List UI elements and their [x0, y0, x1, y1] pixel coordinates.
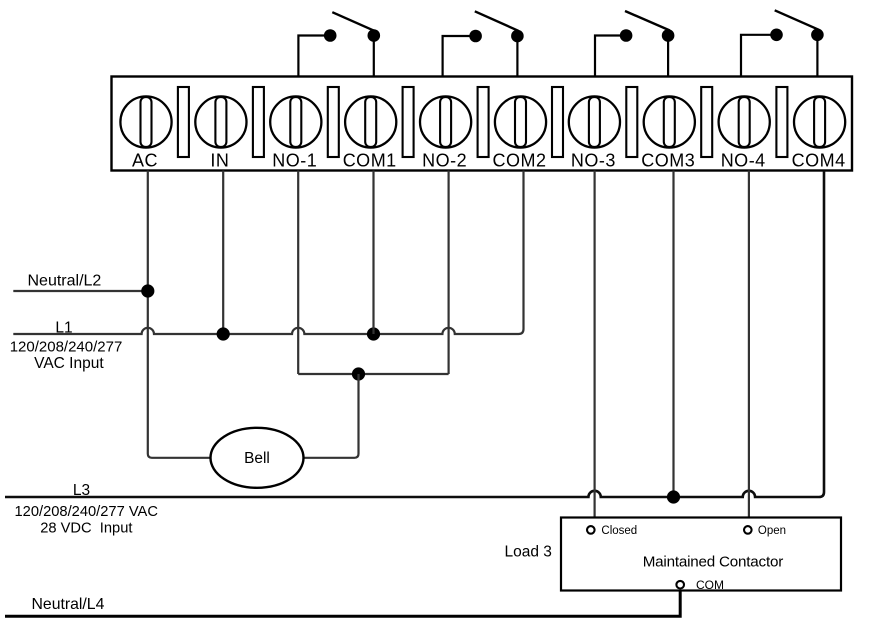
junction dot L1/COM1 [367, 327, 380, 340]
terminal NO-1 (screw head) [270, 96, 321, 147]
contactor box U1 Maintained Contactor [561, 518, 841, 591]
svg-text:COM1: COM1 [343, 151, 397, 171]
wire NO-2 drop through L1 to bell bus [448, 171, 450, 375]
svg-text:120/208/240/277 VAC: 120/208/240/277 VAC [15, 504, 159, 520]
svg-text:Open: Open [758, 525, 786, 537]
terminal NO-4 (screw head) [719, 96, 770, 147]
svg-text:NO-4: NO-4 [721, 151, 766, 171]
pin COM [676, 578, 724, 592]
separator divider [552, 87, 563, 157]
wire AC drop to Neutral/L2 and Bell [148, 171, 211, 458]
svg-text:28 VDC Input: 28 VDC Input [40, 521, 132, 537]
svg-text:L1: L1 [55, 320, 72, 337]
separator divider [403, 87, 414, 157]
separator divider [626, 87, 637, 157]
svg-text:VAC Input: VAC Input [34, 355, 104, 372]
terminal COM1 (screw head) [345, 96, 396, 147]
wire NO-3 drop through L3 to contactor Closed [593, 171, 595, 518]
junction dot AC/Neutral-L2 [141, 284, 154, 297]
junction dot L3/COM3 [667, 490, 680, 503]
wire L1 line (hops over AC, NO-1, NO-2; ends up at COM2) [13, 171, 523, 335]
terminal block TB1 [112, 77, 853, 171]
svg-text:Load 3: Load 3 [505, 543, 552, 560]
wire bell right lead up to bus [304, 374, 359, 458]
svg-text:Closed: Closed [601, 525, 637, 537]
separator divider [478, 87, 489, 157]
svg-text:NO-1: NO-1 [272, 151, 317, 171]
wire bell bus NO-1 to NO-2 [298, 373, 448, 375]
terminal NO-3 (screw head) [569, 96, 620, 147]
terminal NO-2 (screw head) [420, 96, 471, 147]
svg-text:COM4: COM4 [792, 151, 846, 171]
bell B1 [211, 428, 304, 488]
wire NO-1 drop through L1 to bell bus [297, 171, 299, 375]
separator divider [701, 87, 712, 157]
junction dot L1/IN [217, 327, 230, 340]
separator divider [253, 87, 264, 157]
switch S2 (NO-2/COM2 contact) [443, 11, 524, 76]
switch S3 (NO-3/COM3 contact) [595, 11, 674, 77]
wire IN drop to L1 [222, 171, 224, 335]
svg-text:Neutral/L2: Neutral/L2 [28, 273, 102, 290]
terminal COM2 (screw head) [495, 96, 546, 147]
wire COM1 drop to L1 [372, 171, 374, 335]
wire Neutral/L2 line [13, 290, 148, 292]
svg-text:NO-3: NO-3 [571, 151, 616, 171]
terminal AC (screw head) [120, 96, 171, 147]
switch S4 (NO-4/COM4 contact) [741, 10, 824, 76]
wire L3 line (hops over NO-3, NO-4; dot at COM3; ends up at COM4) [5, 171, 824, 498]
svg-text:Bell: Bell [244, 450, 270, 467]
wire NO-4 drop through L3 to contactor Open [748, 171, 750, 518]
svg-text:Neutral/L4: Neutral/L4 [32, 596, 105, 613]
svg-text:Maintained Contactor: Maintained Contactor [643, 554, 784, 571]
svg-text:COM: COM [696, 578, 724, 592]
pin Open [744, 525, 786, 537]
svg-text:COM3: COM3 [641, 151, 695, 171]
terminal IN (screw head) [195, 96, 246, 147]
wire COM pin drop to Neutral/L4 [5, 591, 680, 617]
svg-text:COM2: COM2 [492, 151, 546, 171]
svg-text:NO-2: NO-2 [422, 151, 467, 171]
junction dot bell bus [352, 367, 365, 380]
wire COM3 drop to L3 [672, 171, 674, 498]
terminal COM4 (screw head) [794, 96, 845, 147]
svg-text:120/208/240/277: 120/208/240/277 [10, 339, 123, 356]
separator divider [328, 87, 339, 157]
svg-text:IN: IN [210, 151, 229, 171]
switch S1 (NO-1/COM1 contact) [298, 12, 380, 76]
terminal COM3 (screw head) [644, 96, 695, 147]
separator divider [776, 87, 787, 157]
svg-text:AC: AC [132, 151, 158, 171]
pin Closed [587, 525, 637, 537]
separator divider [178, 87, 189, 157]
